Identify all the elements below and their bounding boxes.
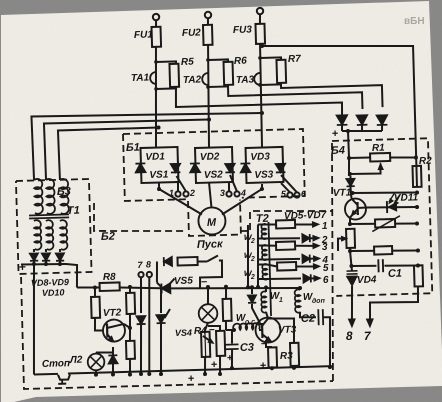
wire rectifier output bus xyxy=(21,263,66,265)
lamp signal xyxy=(206,285,210,289)
bus dots R4 block xyxy=(203,372,207,376)
wire w2 left bus xyxy=(256,224,259,287)
module VD1/VS1 xyxy=(140,147,178,183)
resistor bottom right B4 xyxy=(414,265,423,286)
resistor R3 xyxy=(268,347,277,367)
wire module1 to motor xyxy=(159,182,202,216)
wire phase A vertical xyxy=(155,20,157,27)
terminal 4 xyxy=(234,191,239,196)
wire diode collect line xyxy=(342,130,382,132)
resistor R1 potentiometer xyxy=(349,156,370,159)
current transformer TA3 xyxy=(254,73,260,85)
zener VD4 xyxy=(350,266,353,271)
wire phase B vertical xyxy=(207,18,209,25)
wire bottom bus xyxy=(34,373,58,376)
diode VT3 base feed xyxy=(251,287,253,294)
diode group diode 1 xyxy=(337,115,348,125)
block B3 dashed border xyxy=(16,179,92,274)
terminal 3 xyxy=(226,191,231,196)
R4 wiper arrow xyxy=(203,336,213,344)
winding Wdop xyxy=(299,288,301,290)
wire stair TA3 to VD group xyxy=(281,82,383,110)
resistor R6 xyxy=(224,62,234,85)
fuse FU3 xyxy=(255,24,265,44)
wire TA1 loop xyxy=(156,61,176,64)
wire VT1 base row xyxy=(350,191,354,195)
potentiometer below VT1 xyxy=(346,229,355,248)
terminal 5 xyxy=(287,192,292,197)
capacitor C3 xyxy=(232,330,235,344)
wire start branch riser xyxy=(156,262,157,283)
terminal 1 xyxy=(175,191,180,196)
module VD3/VS3 xyxy=(246,147,284,183)
block B2 dashed top edge xyxy=(93,201,186,234)
capacitor C1 xyxy=(376,260,384,272)
diode VD8 xyxy=(30,253,38,260)
wire VT2 emitter to bus xyxy=(112,347,114,375)
transformer T1 secondary coil 3 xyxy=(60,220,68,250)
terminal 6 xyxy=(294,192,299,197)
terminal 2 xyxy=(183,191,188,196)
wire VT2 collector xyxy=(124,324,130,328)
wire emitter row xyxy=(348,222,352,226)
transistor VT2 xyxy=(103,319,126,342)
wire collect to B4 xyxy=(348,131,349,158)
motor M xyxy=(198,207,226,235)
R1 wiper xyxy=(378,163,383,169)
wire top frame to B4 right rail xyxy=(262,42,417,191)
current transformer TA1 xyxy=(150,72,156,84)
output row 2: diode VD5 and arrow xyxy=(266,238,300,240)
diode above VT1 xyxy=(346,179,354,186)
wire Wdop to C2 xyxy=(300,312,316,318)
wire VT3 emitter down xyxy=(266,340,272,347)
wire to VT2 base xyxy=(95,318,104,331)
output row 1: resistor and arrow xyxy=(266,223,276,226)
lamp L2 xyxy=(96,351,113,354)
wire T2 primary feeds xyxy=(246,225,249,287)
wire TA3 loop xyxy=(260,57,281,60)
diode VD11 xyxy=(387,202,397,212)
winding w2 coil 2 xyxy=(262,245,267,260)
output row 4: diode VD6 and arrow xyxy=(266,259,300,260)
block B4 dashed border xyxy=(332,138,432,296)
diode start branch xyxy=(164,257,172,266)
block B2 dashed border left/bottom/right xyxy=(21,268,333,389)
winding W1 xyxy=(265,287,267,292)
wire C2 to bottom xyxy=(323,317,331,367)
switch Pusk xyxy=(197,260,207,263)
wire lamp to R4b xyxy=(208,326,220,332)
wire module2 gate/stubs xyxy=(228,182,230,192)
thyristor VS4 xyxy=(160,289,161,314)
resistor R8 xyxy=(100,282,120,291)
resistor R4 right xyxy=(216,331,225,356)
wire VT1 collector row xyxy=(358,206,418,209)
transformer T1 primary coil 2 xyxy=(46,179,55,214)
wire block bottom row xyxy=(230,366,234,370)
resistor right of lamp xyxy=(224,285,228,289)
resistor VT2 base xyxy=(91,297,100,318)
diode VD10 xyxy=(56,253,64,260)
resistor R2 xyxy=(412,166,421,187)
wire module1 gate/stubs xyxy=(177,183,179,192)
wire bus phase B to T1 coil2 xyxy=(44,119,211,180)
button Stop xyxy=(58,374,70,379)
diode VD9 xyxy=(42,253,50,260)
terminal B top xyxy=(205,12,212,19)
winding Wos feedback xyxy=(233,323,260,330)
thermistor in emitter row xyxy=(375,219,395,228)
wire base resistor drop xyxy=(93,285,97,289)
transformer T1 secondary coil 1 xyxy=(34,220,42,250)
wire control rail xyxy=(77,287,99,288)
wire module2 to motor xyxy=(209,182,212,208)
resistor R7 xyxy=(276,60,286,83)
wire B3 plus rail down-left xyxy=(31,264,37,374)
resistor in row xyxy=(374,246,392,254)
resistor start branch xyxy=(177,257,197,266)
wire phase C vertical xyxy=(259,14,262,24)
resistor chain x130 lower xyxy=(126,341,135,359)
bus junction dots left xyxy=(94,373,98,377)
diode on wire 7 xyxy=(136,316,145,324)
wire stair TA1 to VD group xyxy=(175,84,342,119)
junction dots TA loops xyxy=(154,60,158,64)
output row 3: resistor and arrow xyxy=(266,244,276,247)
current transformer TA2 xyxy=(202,73,208,85)
transformer T1 core xyxy=(29,214,69,215)
resistor R4 left xyxy=(201,332,210,357)
resistor R5 xyxy=(169,64,179,87)
terminal C top xyxy=(257,8,264,15)
diode group diode 2 xyxy=(357,115,368,125)
wire Wos to R4 block xyxy=(226,329,234,331)
transformer T1 primary coil 1 xyxy=(34,179,43,214)
motor pocket dashed xyxy=(188,200,241,236)
wire output 8 xyxy=(351,286,353,320)
wire module3 to motor xyxy=(221,184,263,214)
wire rail dots VT3 block xyxy=(246,285,250,289)
transformer T1 secondary coil 2 xyxy=(46,220,54,250)
wire TA2 loop xyxy=(208,59,228,62)
terminal A top xyxy=(153,14,160,21)
thyristor VS5 xyxy=(162,283,171,293)
wire B4 left rail xyxy=(348,158,349,176)
wire stair TA2 to VD group xyxy=(228,83,362,113)
wire module3 gate/stubs xyxy=(281,183,290,193)
diode group diode 3 xyxy=(377,115,388,125)
transformer T1 primary coil 3 xyxy=(60,179,69,214)
diode beside L2 xyxy=(108,355,117,363)
winding w2 coil 3 xyxy=(262,264,267,280)
resistor collector branch xyxy=(268,318,295,344)
capacitor C2 xyxy=(318,309,323,325)
output row 6: diode VD7 and arrow xyxy=(267,278,301,279)
wire output 7 arrow xyxy=(366,319,373,327)
module VD2/VS2 xyxy=(195,147,233,183)
wire bus phase C to T1 coil1 xyxy=(31,110,263,180)
wire resistor row B4 xyxy=(348,249,352,253)
transistor VT3 xyxy=(255,317,281,343)
wire B3 to R8 rail xyxy=(66,264,78,288)
fuse FU1 xyxy=(152,27,162,47)
output row 5: resistor and arrow xyxy=(267,264,277,266)
block B1 dashed border xyxy=(123,129,305,201)
fuse FU2 xyxy=(203,25,213,45)
transformer T2 core xyxy=(268,222,271,316)
winding w2 coil 1 xyxy=(261,224,266,239)
resistor chain x130 upper xyxy=(128,285,132,289)
wire C1 row xyxy=(350,251,351,266)
wire bus phase A to T1 coil3 xyxy=(58,128,160,180)
transistor VT1 xyxy=(345,198,367,220)
wire W1 to VT3 collector xyxy=(266,312,268,319)
